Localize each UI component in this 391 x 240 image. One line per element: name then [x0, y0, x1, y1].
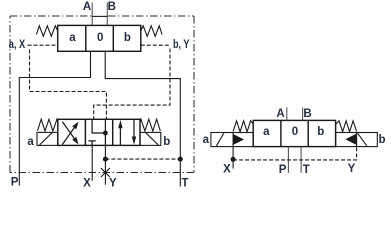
svg-text:b: b	[378, 134, 385, 146]
svg-text:b, Y: b, Y	[173, 39, 190, 51]
dashed X-Y link right valve	[233, 147, 357, 160]
svg-text:b: b	[124, 32, 131, 44]
wire A-B connector at border	[92, 15, 107, 17]
svg-text:0: 0	[292, 126, 298, 138]
wire X right valve	[232, 133, 234, 169]
svg-text:0: 0	[97, 32, 103, 44]
pilot valve body	[58, 25, 141, 51]
svg-text:T: T	[303, 164, 310, 176]
junction dot Y	[103, 157, 108, 162]
main position a crossed arrows	[62, 126, 75, 144]
pilot line X routing dashed	[30, 50, 107, 120]
pilot triangle right	[345, 134, 356, 145]
actuator left box right valve	[211, 133, 253, 147]
main valve body	[58, 119, 140, 145]
wire T right valve	[300, 147, 302, 173]
wire B top	[106, 3, 108, 26]
wire pilot B output	[105, 51, 180, 186]
svg-text:X: X	[83, 177, 91, 189]
actuator right box right valve	[336, 133, 378, 147]
valve body right	[253, 120, 335, 146]
svg-text:a: a	[27, 136, 34, 148]
wire B right valve	[302, 108, 304, 121]
svg-text:B: B	[108, 1, 116, 13]
wire P right valve	[287, 147, 289, 173]
wire pilot A output	[19, 51, 90, 185]
spring right right-valve	[336, 121, 357, 132]
main pilot actuator right	[140, 132, 161, 145]
svg-text:a: a	[263, 126, 270, 138]
svg-text:T: T	[181, 178, 188, 190]
svg-text:A: A	[276, 108, 284, 120]
svg-text:a, X: a, X	[9, 39, 26, 51]
main spring right	[140, 119, 160, 131]
pilot line Y routing dashed	[94, 49, 170, 120]
svg-text:B: B	[303, 108, 311, 120]
pilot spring left	[36, 26, 57, 37]
svg-text:b: b	[317, 126, 324, 138]
wire A right valve	[286, 108, 288, 121]
main position b parallel arrows	[119, 127, 121, 145]
main position 0 internals	[92, 119, 105, 133]
pilot spring right	[141, 26, 162, 37]
svg-text:P: P	[11, 176, 19, 188]
junction dot T	[178, 157, 183, 162]
svg-text:a: a	[69, 32, 76, 44]
blocked port symbol	[88, 141, 95, 146]
pilot triangle left	[233, 134, 244, 145]
wire at right triangle base	[356, 133, 358, 147]
enclosure dash-dot border	[10, 16, 194, 173]
spring left right-valve	[233, 121, 253, 132]
junction dot in 0 box	[103, 131, 108, 136]
svg-text:A: A	[83, 1, 91, 13]
plug symbol on Y line	[101, 168, 110, 177]
pilot line X dashed to valve	[28, 44, 58, 46]
svg-text:a: a	[203, 134, 210, 146]
svg-text:b: b	[163, 136, 170, 148]
wire X port	[91, 145, 93, 180]
svg-text:Y: Y	[109, 177, 117, 189]
wire Y port with junction	[104, 145, 106, 184]
svg-text:Y: Y	[348, 163, 356, 175]
svg-text:P: P	[279, 164, 287, 176]
pilot line Y dashed from valve	[141, 44, 170, 46]
main spring left	[38, 119, 58, 131]
wire A top	[91, 3, 93, 26]
junction dot X right valve	[231, 157, 236, 162]
svg-text:X: X	[223, 164, 231, 176]
dashed Y to T link	[105, 158, 180, 160]
main pilot actuator left	[37, 132, 58, 145]
